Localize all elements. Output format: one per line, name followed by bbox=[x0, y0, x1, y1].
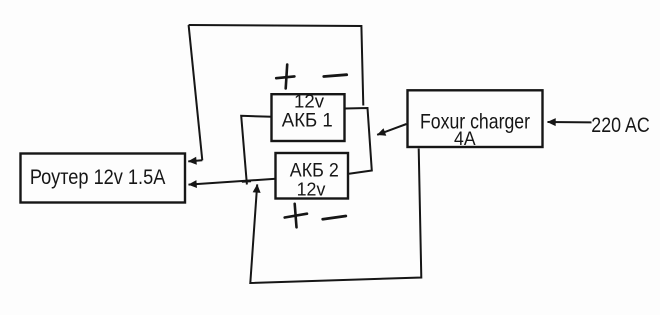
junction tick bbox=[242, 180, 251, 183]
minus sign below AKB2 bbox=[323, 216, 346, 219]
wire: AKB1 right to AKB2 right connector bbox=[345, 108, 372, 174]
box: AKB1 battery bbox=[272, 94, 345, 141]
wire arrow from Foxur charger to battery wire bbox=[377, 124, 406, 135]
wire: top net from upper-left corner to right of AKB1 bbox=[189, 25, 364, 106]
minus sign above AKB1 bbox=[324, 75, 347, 77]
wire: AKB1 left down to junction bbox=[241, 116, 272, 185]
box: router bbox=[21, 154, 186, 203]
plus sign above AKB1 bbox=[276, 65, 294, 89]
svg-text:Роутер 12v 1.5A: Роутер 12v 1.5A bbox=[30, 166, 166, 189]
wire: left slanted drop from top net toward router bbox=[189, 25, 203, 160]
svg-text:220 AC: 220 AC bbox=[591, 114, 650, 137]
box: Foxur charger bbox=[408, 90, 543, 147]
plus sign below AKB2 bbox=[285, 204, 307, 228]
svg-text:12v: 12v bbox=[297, 178, 326, 199]
box: AKB2 battery bbox=[276, 153, 349, 199]
svg-text:4A: 4A bbox=[454, 129, 476, 150]
svg-text:АКБ 1: АКБ 1 bbox=[282, 109, 333, 131]
wire arrow into router top-right bbox=[188, 160, 202, 161]
wire: bottom loop from Foxur charger bottom up to plus junction bbox=[250, 149, 421, 284]
wire arrow from AKB2 left to router bbox=[189, 179, 276, 185]
wire arrow from 220 AC to Foxur charger bbox=[548, 121, 592, 123]
